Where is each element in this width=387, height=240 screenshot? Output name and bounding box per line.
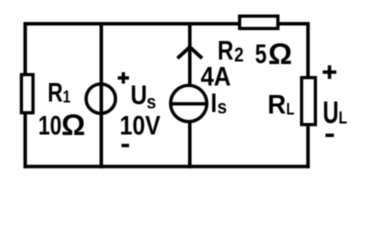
minus sign (U_s) [122, 144, 130, 147]
svg-text:L: L [339, 108, 348, 128]
current source I_s [171, 85, 207, 121]
svg-text:5: 5 [255, 39, 267, 69]
arrow (I_s direction) [178, 47, 203, 58]
minus sign (U_L) [326, 134, 334, 137]
svg-text:s: s [217, 96, 227, 118]
svg-text:Ω: Ω [268, 38, 292, 71]
wire branch 2 (U_s) [100, 22, 104, 168]
voltage source U_s [86, 84, 115, 113]
svg-text:s: s [147, 91, 157, 113]
current source bar [171, 102, 207, 105]
svg-text:R: R [268, 89, 287, 120]
resistor R2 [240, 16, 278, 28]
wire branch 3 (I_s) [188, 22, 192, 168]
svg-text:I: I [211, 88, 217, 118]
svg-text:Ω: Ω [61, 109, 85, 142]
svg-text:2: 2 [234, 43, 243, 66]
svg-text:10: 10 [38, 111, 61, 141]
wire left branch [23, 22, 27, 168]
svg-text:U: U [323, 94, 339, 130]
wire top [24, 22, 309, 26]
svg-text:1: 1 [63, 87, 71, 107]
wire bottom [24, 165, 310, 169]
svg-text:4A: 4A [201, 62, 231, 92]
plus sign (U_L) [323, 65, 337, 79]
svg-text:U: U [131, 80, 148, 110]
resistor RL [302, 78, 316, 125]
svg-text:L: L [286, 100, 294, 119]
wire right branch [306, 22, 310, 168]
svg-text:R: R [48, 78, 63, 108]
svg-text:10V: 10V [120, 111, 161, 141]
resistor R1 [21, 75, 33, 113]
plus sign (U_s) [118, 72, 129, 83]
svg-text:R: R [218, 36, 234, 66]
